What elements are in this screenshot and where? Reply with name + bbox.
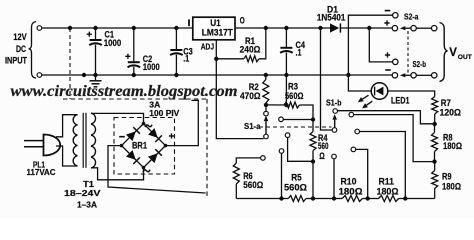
junction dot C2 bottom [132,73,136,77]
junction dot R7 bottom [433,122,437,126]
junction dot C1 top [93,26,97,30]
node S2-a pivot [411,26,416,31]
led emission arrows [362,95,368,99]
diode BR1 top-left [126,131,136,141]
junction dot C4 top [284,26,288,30]
switch S2-a wiper [405,27,411,29]
junction dots bridge vertices [142,122,146,126]
svg-text:100 PIV: 100 PIV [149,108,179,118]
wire contact1 stub [265,105,267,111]
junction dot C2 top [132,26,136,30]
resistor R9 180ohm [434,162,436,171]
node Vout + terminal [432,26,437,31]
op-amp U1 LM317T box [193,17,235,40]
node S1-b contact 2 [349,112,354,117]
label C2 + [125,54,130,59]
svg-text:R3: R3 [288,81,298,91]
svg-text:R5: R5 [291,172,302,182]
wire b3 to bus [360,132,406,199]
wire secondary bottom to bridge [91,168,144,180]
wire secondary top to bridge [91,113,144,123]
svg-text:470Ω: 470Ω [240,91,261,101]
junction dot R1 top [264,26,268,30]
junction dot R4 bottom [311,159,315,163]
svg-text:LM317T: LM317T [202,27,233,37]
capacitor C2 [133,28,135,62]
resistor R3 560ohm [266,104,284,106]
node input + terminal [37,26,42,31]
svg-text:.1: .1 [183,53,189,63]
node S2-b plus contact [393,59,398,64]
bridge rectifier BR1 diamond [122,124,166,168]
module dashed box [63,98,207,100]
brace input [29,22,36,79]
svg-text:.1: .1 [296,48,302,58]
wire top rail (input to U1) [42,27,193,29]
svg-text:Ω: Ω [319,151,325,161]
svg-text:LED1: LED1 [391,95,410,105]
svg-text:240Ω: 240Ω [240,45,261,55]
transformer T1 core [82,113,84,168]
svg-text:INPUT: INPUT [5,56,27,66]
diode BR1 bottom-right [148,153,158,163]
led LED1 [371,83,388,100]
junction dot a2 node [311,117,315,121]
svg-text:S1-b: S1-b [326,97,342,107]
svg-text:560Ω: 560Ω [285,91,304,101]
wire bus right [399,198,435,200]
junction dot C4 bottom [284,73,288,77]
svg-text:560Ω: 560Ω [284,183,307,193]
wire ADJ to S1-a wiper [216,59,263,139]
wire rail after D1 [341,27,392,29]
junction dot [284,103,288,107]
wire dashed optional link to AC module [69,28,71,99]
svg-text:1N5401: 1N5401 [317,12,346,22]
resistor R5 560ohm [288,196,306,202]
diode BR1 top-right [148,128,158,138]
wire bus left [236,198,288,200]
junction dot R8 bottom [432,159,436,163]
svg-text:180Ω: 180Ω [339,187,363,197]
transformer T1 secondary [91,113,96,168]
capacitor C1 [95,28,97,40]
resistor R6 560ohm [233,163,239,184]
svg-text:1000: 1000 [143,62,160,72]
svg-text:BR1: BR1 [132,141,148,152]
wire bottom rail [42,74,392,76]
bridge dashed box [114,118,175,175]
node Vout - terminal [432,73,437,78]
node input - terminal [37,73,42,78]
resistor R8 180ohm [434,124,436,133]
svg-text:S2-a: S2-a [404,12,419,22]
svg-text:180Ω: 180Ω [377,187,399,197]
junction dot [403,196,407,200]
svg-text:117VAC: 117VAC [27,167,56,177]
transformer T1 primary [73,115,77,166]
node S1-a contact 3 [285,133,290,138]
resistor R4 560ohm [310,132,316,151]
node S1-b contact 4 [351,147,356,152]
svg-text:12V: 12V [13,32,27,43]
wire plug upper [56,115,78,137]
svg-text:180Ω: 180Ω [442,181,461,191]
wire S2-b plus feed [369,28,392,62]
wire R4 bottom to bus [312,162,314,199]
switch S2-b wiper [405,74,411,76]
wire b5 to bus [333,159,335,199]
junction dot [82,73,86,77]
wire S1 linkage dashed [259,126,332,128]
junction dot [346,73,350,77]
junction dot [318,26,322,30]
wire contact4 to bus [281,153,283,198]
node S1-b contact 5 [332,154,337,159]
wire bus mid1 [306,198,342,200]
svg-text:DC: DC [16,44,26,55]
wire U1 output rail [235,27,330,29]
svg-text:S2-b: S2-b [413,59,427,69]
switch S1-a wiper arrow [265,121,267,134]
junction dot [332,196,336,200]
svg-text:560: 560 [318,141,329,151]
switch S1-b wiper terminal [332,128,337,133]
wire S2-b to Vout [416,74,431,76]
capacitor C4 [285,28,287,48]
junction dot ADJ node [214,57,218,61]
svg-text:1000: 1000 [104,38,122,48]
svg-text:ADJ: ADJ [201,41,214,51]
wire b2 to R8 bottom [354,115,433,162]
label S2-b minus sign [385,69,391,71]
node S1-a contact 2 [279,117,284,122]
svg-text:560Ω: 560Ω [243,180,263,190]
svg-text:R10: R10 [341,177,357,187]
node S2-a minus contact [393,13,398,18]
capacitor C3 [175,28,177,50]
wire S2-a to Vout [416,27,431,29]
ground [95,75,97,80]
resistor R2 470ohm [265,75,267,80]
wire C4 bottom to R3 [285,75,287,105]
junction dot [367,26,371,30]
wire LED left [348,75,371,91]
junction dot R2 bottom [264,103,268,107]
svg-text:18–24V: 18–24V [64,188,101,198]
wire BR1 plus out [166,100,199,145]
svg-text:1–3A: 1–3A [77,199,97,209]
wire contact3 to R4 bottom [288,138,313,162]
node S1-b contact 1 [333,109,338,114]
svg-text:120Ω: 120Ω [440,108,462,118]
switch S1-a wiper terminal [264,134,269,139]
wire S2-a minus feed [348,15,392,75]
wire BR1 minus out [108,146,206,193]
resistor R1 240ohm [216,58,244,60]
node S1-b contact 3 [355,129,360,134]
resistor R7 120ohm [432,97,438,115]
node S2-b pivot [411,73,416,78]
wire b1 to R7 bottom [338,111,434,124]
svg-text:R9: R9 [442,172,452,182]
svg-text:OUT: OUT [458,54,473,61]
junction dot [279,196,283,200]
svg-text:180Ω: 180Ω [443,141,462,151]
node S1-a contact 5 [261,156,266,161]
plug PL1 [44,135,61,156]
svg-text:I: I [188,18,191,28]
label BR1 ac marks [145,125,152,127]
node S1-a contact 4 [279,149,284,154]
wire plug lower [56,146,78,166]
junction dot C3 bottom [174,73,178,77]
wire b4 to bus [356,149,368,198]
junction dot C1 bottom [93,73,97,77]
switch S1-b wiper arrow [334,120,336,128]
wire contact5 to R6 [236,158,260,163]
label S2-b plus sign [385,52,390,57]
wire S2 linkage dashed [407,31,409,73]
wire bus mid2 [362,198,378,200]
wire LED right to R7 [388,91,435,97]
svg-text:V: V [449,47,457,59]
svg-text:R7: R7 [441,98,451,108]
diode BR1 bottom-left [126,150,136,160]
svg-text:www.circuitsstream.blogspot.co: www.circuitsstream.blogspot.com [11,83,238,100]
label C1 + [87,32,92,37]
junction dot [68,26,72,30]
label BR1 minus [119,136,125,138]
junction dot C3 top [174,26,178,30]
label Vout brace [440,23,448,82]
diode D1 1N5401 [330,23,339,32]
node S2-b minus contact [392,73,397,78]
svg-text:S1-a: S1-a [244,121,261,131]
junction dot [366,196,370,200]
junction dot R2 top [264,73,268,77]
svg-text:O: O [240,16,245,26]
resistor R11 180ohm [379,196,399,202]
node S2-a plus contact [392,26,397,31]
resistor R10 180ohm [342,196,362,202]
label S2-a plus sign [384,20,389,25]
svg-text:R11: R11 [379,177,395,187]
wire contact2 to R4 top [283,119,313,121]
wire S1-b wiper feed [321,28,333,130]
node S1-a contact 1 [264,111,269,116]
junction dot [311,196,315,200]
wire U1 ADJ stub [215,40,217,59]
label BR1 plus [169,133,174,138]
label S2-a minus sign [385,10,391,12]
